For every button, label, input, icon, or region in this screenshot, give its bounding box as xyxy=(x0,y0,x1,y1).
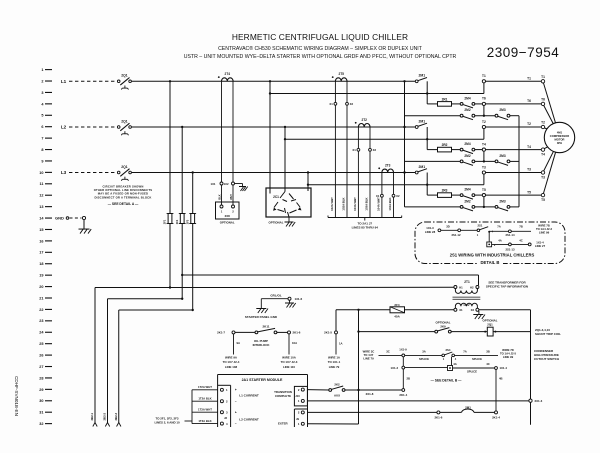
svg-text:1T2A WHT: 1T2A WHT xyxy=(198,385,212,389)
svg-text:102A BLK: 102A BLK xyxy=(342,197,346,210)
svg-text:— SEE DETAIL A —: — SEE DETAIL A — xyxy=(108,202,139,206)
svg-text:10: 10 xyxy=(39,171,43,175)
svg-text:2K11: 2K11 xyxy=(262,324,269,328)
svg-text:2X1-8: 2X1-8 xyxy=(366,392,374,396)
svg-text:OTHER OPTIONAL LINE DISCONNECT: OTHER OPTIONAL LINE DISCONNECTS xyxy=(94,188,153,192)
svg-text:2Q1: 2Q1 xyxy=(121,165,128,169)
svg-text:2K1-4: 2K1-4 xyxy=(399,393,407,397)
svg-text:WIRE 1A: WIRE 1A xyxy=(328,356,341,360)
svg-text:X1: X1 xyxy=(329,102,333,106)
svg-text:2B2-3: 2B2-3 xyxy=(114,412,118,420)
svg-text:LINE 79: LINE 79 xyxy=(363,357,374,361)
svg-text:L3: L3 xyxy=(61,170,67,175)
svg-text:21: 21 xyxy=(39,296,43,300)
svg-text:2Q1: 2Q1 xyxy=(121,74,128,78)
svg-text:2T5: 2T5 xyxy=(338,72,344,76)
svg-text:SHUNT TRIP COIL: SHUNT TRIP COIL xyxy=(535,332,561,336)
svg-text:104A BLK: 104A BLK xyxy=(388,197,392,210)
svg-text:4A: 4A xyxy=(498,238,502,242)
svg-text:GND: GND xyxy=(55,216,64,221)
svg-text:102A WHT: 102A WHT xyxy=(330,197,334,211)
svg-text:2T1: 2T1 xyxy=(464,280,470,284)
svg-text:T1: T1 xyxy=(541,75,545,79)
svg-text:+: + xyxy=(235,388,237,392)
svg-text:LINE 79: LINE 79 xyxy=(329,365,340,369)
svg-text:2309−7954: 2309−7954 xyxy=(487,45,559,60)
svg-text:4M1: 4M1 xyxy=(557,130,563,134)
svg-text:SPLICE: SPLICE xyxy=(419,357,429,361)
svg-text:−: − xyxy=(235,422,237,426)
svg-text:2K1-6: 2K1-6 xyxy=(434,416,442,420)
svg-text:T2: T2 xyxy=(482,120,486,124)
svg-text:2K1-7: 2K1-7 xyxy=(217,331,225,335)
svg-text:3D: 3D xyxy=(446,224,450,228)
svg-text:T2: T2 xyxy=(527,122,531,126)
svg-text:J10: J10 xyxy=(295,394,300,398)
svg-text:2M2: 2M2 xyxy=(464,199,470,203)
svg-text:OPTIONAL: OPTIONAL xyxy=(269,221,284,225)
svg-text:LINES 85 THRU 94: LINES 85 THRU 94 xyxy=(352,226,379,230)
svg-text:LINE 110: LINE 110 xyxy=(283,365,295,369)
svg-text:2M3: 2M3 xyxy=(499,199,505,203)
svg-text:7A: 7A xyxy=(463,350,467,354)
svg-text:2S1 WIRING WITH INDUSTRIAL CHI: 2S1 WIRING WITH INDUSTRIAL CHILLERS xyxy=(450,252,535,257)
svg-text:2B: 2B xyxy=(407,376,411,380)
svg-text:2R1: 2R1 xyxy=(442,98,448,102)
svg-text:2M4: 2M4 xyxy=(464,96,470,100)
svg-text:T2: T2 xyxy=(541,121,545,125)
svg-text:17: 17 xyxy=(39,251,43,255)
svg-text:AUX: AUX xyxy=(334,394,340,398)
svg-text:2S1-13: 2S1-13 xyxy=(505,247,514,251)
svg-text:2K1-4: 2K1-4 xyxy=(492,416,500,420)
svg-text:2Q1: 2Q1 xyxy=(487,322,493,326)
svg-text:GRL/OL: GRL/OL xyxy=(270,293,281,297)
svg-text:2M3: 2M3 xyxy=(499,108,505,112)
svg-text:2B2-2: 2B2-2 xyxy=(103,412,107,420)
svg-text:16: 16 xyxy=(39,239,43,243)
svg-text:2B2-1: 2B2-1 xyxy=(90,412,94,420)
svg-text:J9: J9 xyxy=(296,417,299,421)
svg-text:HERMETIC CENTRIFUGAL LIQUID: HERMETIC CENTRIFUGAL LIQUID CHILLER xyxy=(232,32,408,42)
svg-text:1: 1 xyxy=(41,68,43,72)
svg-text:2M1: 2M1 xyxy=(418,165,425,169)
svg-text:WIRE 9A: WIRE 9A xyxy=(225,356,238,360)
svg-text:23: 23 xyxy=(39,319,43,323)
svg-text:LINE 99: LINE 99 xyxy=(503,355,514,359)
svg-text:6: 6 xyxy=(41,125,43,129)
svg-text:2X1-3: 2X1-3 xyxy=(535,399,543,403)
svg-text:L1 CURRENT: L1 CURRENT xyxy=(239,393,259,397)
svg-text:19: 19 xyxy=(39,274,43,278)
svg-text:2Q1: 2Q1 xyxy=(121,119,128,123)
svg-text:2S1: 2S1 xyxy=(478,224,483,228)
svg-text:2F2: 2F2 xyxy=(175,219,179,224)
svg-text:31: 31 xyxy=(39,411,43,415)
svg-text:COMPRESSOR: COMPRESSOR xyxy=(550,134,569,138)
svg-text:103A WHT: 103A WHT xyxy=(353,197,357,211)
svg-text:X1: X1 xyxy=(352,148,356,152)
svg-text:3B: 3B xyxy=(486,350,490,354)
svg-text:28: 28 xyxy=(39,376,43,380)
svg-text:103A BLK: 103A BLK xyxy=(365,197,369,210)
svg-text:T5: T5 xyxy=(541,198,545,202)
svg-text:26: 26 xyxy=(39,354,43,358)
svg-text:TO 1U7 J2-4: TO 1U7 J2-4 xyxy=(223,360,240,364)
svg-text:2F3: 2F3 xyxy=(185,219,189,224)
svg-text:SPLICE: SPLICE xyxy=(472,357,482,361)
svg-text:L2 CURRENT: L2 CURRENT xyxy=(239,417,259,421)
svg-text:11: 11 xyxy=(39,182,43,186)
svg-text:TO 1X1-1: TO 1X1-1 xyxy=(328,360,341,364)
svg-text:LINE 108: LINE 108 xyxy=(225,365,238,369)
svg-text:2A1 STARTER MODULE: 2A1 STARTER MODULE xyxy=(242,378,283,382)
svg-text:2X8: 2X8 xyxy=(225,214,231,218)
svg-text:2M1: 2M1 xyxy=(418,119,425,123)
svg-text:T3: T3 xyxy=(482,165,486,169)
svg-text:2K1-5: 2K1-5 xyxy=(324,331,332,335)
svg-text:T5: T5 xyxy=(482,188,486,192)
svg-text:9A: 9A xyxy=(237,341,241,345)
svg-text:4C: 4C xyxy=(519,238,523,242)
svg-text:2K1-6: 2K1-6 xyxy=(293,331,301,335)
svg-text:2S1-14: 2S1-14 xyxy=(505,233,514,237)
svg-text:2C1: 2C1 xyxy=(273,195,279,199)
svg-text:9: 9 xyxy=(41,159,43,163)
svg-text:7A: 7A xyxy=(497,224,501,228)
svg-text:1X1: 1X1 xyxy=(211,182,216,186)
svg-text:T3: T3 xyxy=(527,168,531,172)
svg-text:32: 32 xyxy=(39,422,43,426)
svg-text:8: 8 xyxy=(41,148,43,152)
svg-text:T4: T4 xyxy=(527,145,531,149)
svg-text:T6: T6 xyxy=(482,97,486,101)
svg-text:7: 7 xyxy=(41,137,43,141)
svg-text:L2: L2 xyxy=(61,125,67,130)
svg-text:CUTOUT SWITCH: CUTOUT SWITCH xyxy=(534,357,559,361)
svg-text:2M4: 2M4 xyxy=(464,142,470,146)
svg-text:SPECIFIC TAP INFORMATION: SPECIFIC TAP INFORMATION xyxy=(486,284,528,288)
svg-text:−: − xyxy=(235,399,237,403)
svg-text:4B: 4B xyxy=(499,376,503,380)
svg-text:X2: X2 xyxy=(471,308,475,312)
svg-text:1X1-3: 1X1-3 xyxy=(391,366,399,370)
svg-text:1T3A BLK: 1T3A BLK xyxy=(198,419,211,423)
svg-text:CIRCUIT BREAKER SHOWN: CIRCUIT BREAKER SHOWN xyxy=(102,184,143,188)
svg-text:T4: T4 xyxy=(541,153,545,157)
svg-text:MAY BE A FUSED OR NON-FUSED: MAY BE A FUSED OR NON-FUSED xyxy=(98,192,148,196)
svg-text:J2: J2 xyxy=(224,416,228,420)
svg-text:104A WHT: 104A WHT xyxy=(377,197,381,211)
svg-text:H1: H1 xyxy=(459,285,463,289)
svg-text:X1: X1 xyxy=(459,308,463,312)
svg-text:L1: L1 xyxy=(61,79,67,84)
svg-text:2T4: 2T4 xyxy=(225,72,231,76)
svg-text:2K9: 2K9 xyxy=(440,325,446,329)
svg-text:22: 22 xyxy=(39,308,43,312)
svg-text:T3: T3 xyxy=(541,176,545,180)
svg-text:DETAIL B: DETAIL B xyxy=(481,260,500,265)
svg-text:T4: T4 xyxy=(482,142,486,146)
svg-text:STARTER PANEL GND: STARTER PANEL GND xyxy=(245,315,278,319)
svg-text:LINES 2, 6 AND 10: LINES 2, 6 AND 10 xyxy=(154,421,180,425)
svg-text:18: 18 xyxy=(39,262,43,266)
svg-text:X2: X2 xyxy=(396,194,400,198)
svg-text:20: 20 xyxy=(39,285,43,289)
svg-text:BLK: BLK xyxy=(218,194,221,199)
svg-text:2T2: 2T2 xyxy=(361,118,367,122)
svg-text:1T3A WHT: 1T3A WHT xyxy=(198,408,212,412)
svg-text:T6: T6 xyxy=(527,99,531,103)
svg-text:29: 29 xyxy=(39,388,43,392)
svg-text:EXTER: EXTER xyxy=(278,421,289,425)
svg-text:T1: T1 xyxy=(482,74,486,78)
svg-text:CDHF-SVN01B-EN: CDHF-SVN01B-EN xyxy=(14,376,19,416)
svg-text:2M2: 2M2 xyxy=(464,108,470,112)
svg-text:2S1-12: 2S1-12 xyxy=(451,233,460,237)
svg-text:3: 3 xyxy=(41,91,43,95)
svg-text:15: 15 xyxy=(39,228,43,232)
svg-text:1T2A BLK: 1T2A BLK xyxy=(198,397,211,401)
svg-text:+: + xyxy=(235,410,237,414)
svg-text:X2: X2 xyxy=(350,102,354,106)
svg-text:25: 25 xyxy=(39,342,43,346)
svg-text:WHT: WHT xyxy=(230,194,233,200)
svg-text:T6: T6 xyxy=(541,98,545,102)
svg-text:INTERLOCK: INTERLOCK xyxy=(253,343,271,347)
svg-text:12: 12 xyxy=(39,194,43,198)
svg-text:T5: T5 xyxy=(527,190,531,194)
svg-text:2T3: 2T3 xyxy=(385,163,391,167)
svg-text:MOTOR: MOTOR xyxy=(555,138,565,142)
svg-text:13: 13 xyxy=(39,205,43,209)
svg-text:131-6: 131-6 xyxy=(295,297,303,301)
svg-text:2K2: 2K2 xyxy=(334,383,340,387)
svg-text:T1: T1 xyxy=(527,77,531,81)
svg-text:2M2: 2M2 xyxy=(464,154,470,158)
svg-text:2R2: 2R2 xyxy=(442,143,448,147)
svg-text:OPTIONAL: OPTIONAL xyxy=(220,221,235,225)
svg-text:2F1: 2F1 xyxy=(163,219,167,224)
svg-text:LINE 28: LINE 28 xyxy=(425,230,436,234)
svg-text:10A: 10A xyxy=(292,341,297,345)
svg-text:7B: 7B xyxy=(519,224,523,228)
svg-text:2M1: 2M1 xyxy=(418,74,425,78)
svg-text:WIRE 10A: WIRE 10A xyxy=(282,356,297,360)
svg-text:27: 27 xyxy=(39,365,43,369)
svg-text:2R3: 2R3 xyxy=(442,189,448,193)
svg-text:115V: 115V xyxy=(463,303,470,307)
svg-text:2: 2 xyxy=(41,79,43,83)
svg-text:SPLICE: SPLICE xyxy=(467,370,477,374)
svg-text:3A: 3A xyxy=(422,350,426,354)
svg-text:X2: X2 xyxy=(373,148,377,152)
svg-text:1X1-9: 1X1-9 xyxy=(399,347,407,351)
svg-text:USTR – UNIT MOUNTED WYE–DE: USTR – UNIT MOUNTED WYE–DELTA STARTER WI… xyxy=(184,54,457,60)
svg-text:— SEE DETAIL B —: — SEE DETAIL B — xyxy=(431,378,463,382)
svg-text:LINE 27: LINE 27 xyxy=(535,244,546,248)
svg-text:5: 5 xyxy=(41,114,43,118)
svg-text:3C: 3C xyxy=(386,350,390,354)
svg-text:1X2: 1X2 xyxy=(224,182,229,186)
svg-text:LINE 99: LINE 99 xyxy=(539,231,550,235)
svg-text:DISCONNECT OR A TERMINAL BLOCK: DISCONNECT OR A TERMINAL BLOCK xyxy=(94,195,151,199)
svg-text:COMPLETE: COMPLETE xyxy=(275,394,291,398)
svg-text:2M3: 2M3 xyxy=(499,154,505,158)
svg-text:2S4: 2S4 xyxy=(446,348,451,352)
svg-text:4C: 4C xyxy=(486,362,490,366)
svg-text:CENTRAVAC® CH530 SCHEMATIC W: CENTRAVAC® CH530 SCHEMATIC WIRING DIAGRA… xyxy=(218,45,423,52)
svg-text:2M4: 2M4 xyxy=(464,188,470,192)
svg-text:1A: 1A xyxy=(339,342,343,346)
svg-text:4A: 4A xyxy=(453,362,457,366)
svg-text:30: 30 xyxy=(39,399,43,403)
svg-text:H2: H2 xyxy=(470,285,474,289)
svg-text:3PH: 3PH xyxy=(557,141,562,145)
svg-text:1X1-4: 1X1-4 xyxy=(500,366,508,370)
svg-text:40A: 40A xyxy=(394,315,400,319)
svg-text:TO 1U7 J2-3: TO 1U7 J2-3 xyxy=(281,360,298,364)
